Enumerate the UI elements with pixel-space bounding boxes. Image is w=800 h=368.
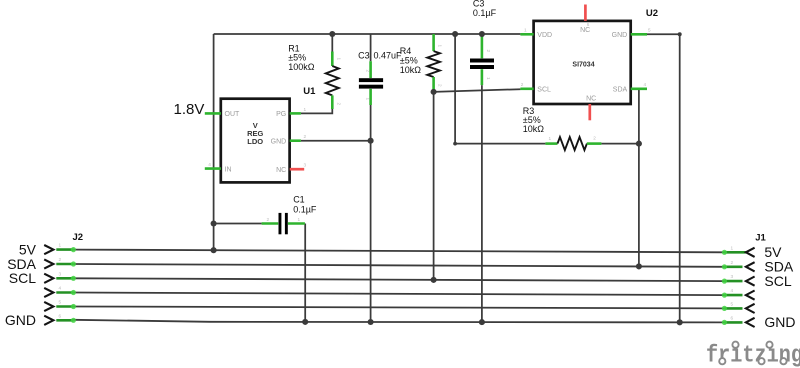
svg-text:0.1µF: 0.1µF [293, 204, 317, 214]
svg-text:1: 1 [549, 136, 552, 141]
J2 pin 2 chevron [44, 259, 53, 268]
junction GND bus / C1 drop [302, 319, 308, 325]
wire bus GND [73, 320, 724, 323]
J1 pin 3 chevron [746, 277, 755, 286]
J2 pin 1 leg [56, 248, 73, 251]
connector leg endpoint highlights [71, 247, 727, 325]
J1 pin 4 chevron [746, 291, 755, 300]
junction rail/R3 drop [452, 31, 458, 37]
svg-text:2: 2 [593, 135, 596, 140]
svg-text:2: 2 [486, 50, 491, 53]
logo ring z [758, 358, 764, 364]
svg-text:4: 4 [59, 286, 62, 291]
svg-text:2: 2 [438, 84, 443, 87]
svg-text:0.47uF: 0.47uF [374, 50, 403, 60]
J2 pin 2 leg [56, 263, 73, 266]
svg-text:5: 5 [731, 301, 734, 306]
J1 pin 1 chevron [746, 248, 755, 257]
wire R4 bottom junction down to SCL bus [433, 90, 435, 280]
svg-text:4: 4 [644, 82, 647, 87]
J1 pin 5 chevron [746, 304, 755, 313]
svg-text:3: 3 [731, 274, 734, 279]
svg-text:2: 2 [337, 103, 342, 106]
J1 pin 3 leg [724, 280, 742, 283]
wire bus SDA [73, 264, 724, 267]
J1 pin 2 chevron [746, 262, 755, 271]
J2 pin 5 chevron [44, 302, 53, 311]
J2 pin 6 chevron [44, 316, 53, 325]
resistor R3 10k horizontal [545, 137, 601, 150]
svg-text:3: 3 [59, 271, 62, 276]
junction SCL bus / SCL drop [431, 277, 437, 283]
capacitor C3 0.47uF vertical [359, 61, 383, 105]
logo ring n [780, 358, 786, 364]
svg-text:2: 2 [521, 82, 524, 87]
svg-text:C3: C3 [358, 50, 370, 60]
U2 pin VDD leg [520, 33, 533, 36]
svg-text:6: 6 [731, 315, 734, 320]
svg-text:1: 1 [298, 217, 301, 222]
svg-text:C1: C1 [293, 195, 305, 205]
svg-text:VDD: VDD [537, 32, 552, 39]
U1 pin IN leg [205, 167, 221, 170]
wire C3 0.47uF bottom down to GND bus [370, 105, 372, 322]
wire bus pin4 [73, 293, 724, 296]
junction rail/C3 0.1uF [479, 31, 485, 37]
capacitor C1 0.1uF horizontal [262, 213, 305, 234]
wire R1 top stub from rail [331, 34, 333, 52]
svg-text:1: 1 [438, 45, 443, 48]
svg-text:3: 3 [304, 163, 307, 168]
svg-text:U1: U1 [303, 86, 316, 97]
svg-text:U2: U2 [646, 8, 658, 19]
svg-text:4: 4 [208, 162, 211, 167]
wire 1.8V rail left vertical (OUT to 5V bus drop) [213, 34, 215, 250]
svg-text:J2: J2 [73, 232, 84, 243]
J2 pin 5 leg [56, 305, 73, 308]
svg-text:J1: J1 [755, 232, 766, 243]
wire R3 right to SDA vertical [601, 143, 639, 145]
U1 pin PG leg [290, 112, 301, 115]
junction GND bus / C3 0.47uF drop [368, 319, 374, 325]
IC U2 SI7034 box [534, 21, 631, 104]
junction SDA bus / SDA drop [636, 263, 642, 269]
logo ring i2 [766, 342, 772, 348]
J2 pin 6 leg [56, 319, 73, 322]
svg-text:IN: IN [225, 166, 232, 173]
U2 pin GND leg [631, 33, 647, 36]
IC U1 voltage regulator box [221, 99, 290, 183]
J1 pin 4 leg [724, 294, 742, 297]
svg-text:5: 5 [648, 27, 651, 32]
svg-text:4: 4 [731, 288, 734, 293]
svg-text:1: 1 [524, 27, 527, 32]
wire SDA vertical from U2 SDA to SDA bus [638, 89, 640, 267]
U1 pin NC leg (red, no connect) [290, 168, 305, 171]
junction GND bus / C3 0.1uF drop [479, 319, 485, 325]
svg-text:100kΩ: 100kΩ [288, 62, 315, 72]
svg-text:NC: NC [276, 167, 286, 174]
svg-text:2: 2 [731, 260, 734, 265]
logo ring f [719, 358, 725, 364]
svg-text:LDO: LDO [247, 137, 263, 146]
svg-text:SCL: SCL [9, 270, 36, 286]
J2 pin 3 chevron [44, 274, 53, 283]
wire PG to R1 bottom [301, 109, 332, 113]
junction LDO GND / C3 0.47uF [368, 138, 374, 144]
J1 pin 6 leg [724, 321, 742, 324]
svg-text:SDA: SDA [613, 87, 628, 94]
connector J2 (left header) [44, 245, 73, 325]
resistor R1 100k vertical [326, 52, 339, 110]
U2 pin SCL leg [520, 88, 533, 91]
svg-text:1: 1 [337, 58, 342, 61]
svg-text:6: 6 [59, 313, 62, 318]
J2 pin 4 chevron [44, 288, 53, 297]
resistor R4 10k vertical [427, 34, 440, 90]
svg-text:GND: GND [612, 32, 628, 39]
svg-text:2: 2 [304, 134, 307, 139]
svg-text:5: 5 [59, 300, 62, 305]
svg-text:GND: GND [764, 314, 795, 330]
svg-text:10kΩ: 10kΩ [400, 65, 422, 75]
J2 pin 4 leg [56, 291, 73, 294]
junction U2 GND corner [678, 32, 682, 36]
svg-text:10kΩ: 10kΩ [523, 124, 545, 134]
svg-text:SCL: SCL [537, 87, 551, 94]
junction R3 right / SDA vertical [636, 141, 642, 147]
svg-text:PG: PG [276, 111, 286, 118]
svg-text:GND: GND [5, 312, 36, 328]
junction C1 left / IN vertical [211, 220, 217, 226]
U1 pin OUT leg [205, 112, 221, 115]
svg-text:1: 1 [365, 98, 370, 101]
logo ring i1 [732, 342, 738, 348]
U1 pin GND leg [290, 139, 301, 142]
wire R3 pull-up drop from rail [455, 34, 545, 144]
U2 pin SDA leg [631, 88, 647, 91]
svg-text:±5%: ±5% [400, 56, 418, 66]
junction R3 left elbow [453, 142, 457, 146]
wire bus pin5 [73, 307, 724, 309]
wire C1 left to IN vertical [214, 223, 262, 225]
wire LDO GND to C3 drop [301, 140, 371, 142]
wire C1 right down to GND bus [304, 224, 306, 322]
svg-text:2: 2 [267, 217, 270, 222]
svg-text:1: 1 [731, 245, 734, 250]
svg-text:1: 1 [59, 243, 62, 248]
U2 pin NC bottom leg (red, no connect) [588, 104, 591, 120]
wire C3 0.1uF bottom down to GND bus [481, 85, 483, 322]
J1 pin 2 leg [724, 265, 742, 268]
J1 pin 6 chevron [746, 318, 755, 327]
wire top 1.8V rail horizontal [214, 33, 521, 35]
wire U2 GND to right vertical [647, 34, 680, 322]
junction R4 bottom / SCL [431, 89, 437, 95]
svg-text:OUT: OUT [225, 111, 241, 118]
svg-text:GND: GND [271, 138, 287, 145]
svg-text:6: 6 [587, 22, 590, 27]
svg-text:1.8V: 1.8V [174, 101, 205, 118]
U2 pin NC top leg (red, no connect) [584, 5, 587, 21]
junction 5V bus / IN drop [211, 247, 217, 253]
wire bus SCL [73, 278, 724, 281]
svg-text:SCL: SCL [764, 273, 791, 289]
wire C3 0.47uF top stub from rail [370, 34, 372, 61]
J1 pin 1 leg [724, 251, 745, 254]
svg-text:1: 1 [486, 77, 491, 80]
J2 pin 3 leg [56, 277, 73, 280]
J1 pin 5 leg [724, 307, 742, 310]
connector J1 (right header) [724, 248, 754, 327]
svg-text:0.1µF: 0.1µF [473, 8, 497, 18]
capacitor C3 0.1uF vertical (near U2) [470, 34, 494, 85]
svg-text:SI7034: SI7034 [572, 61, 594, 68]
J2 pin 1 chevron [44, 245, 53, 254]
svg-text:NC: NC [580, 27, 590, 34]
junction GND bus / U2 GND drop [677, 319, 683, 325]
svg-text:1: 1 [304, 107, 307, 112]
svg-text:2: 2 [59, 257, 62, 262]
wire bus 5V [73, 250, 724, 253]
svg-text:NC: NC [586, 96, 596, 103]
wire SCL from R4 junction to U2 SCL [434, 89, 521, 92]
svg-text:2: 2 [365, 70, 370, 73]
junction rail/R1 [329, 31, 335, 37]
fritzing watermark logo [706, 342, 800, 368]
